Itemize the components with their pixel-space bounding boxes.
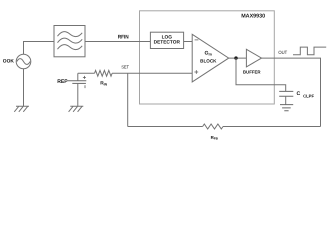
IC U1 MAX9930 outline <box>140 11 275 104</box>
wire OOK to filter <box>24 42 55 55</box>
svg-text:LOG: LOG <box>162 34 173 40</box>
ground (CLPF) <box>280 105 293 111</box>
svg-text:OUT: OUT <box>278 50 287 55</box>
svg-text:Gm: Gm <box>205 50 213 56</box>
log detector block <box>150 32 183 48</box>
wire filter to LOG DETECTOR (RFIN) <box>85 41 150 43</box>
svg-text:DETECTOR: DETECTOR <box>154 40 181 46</box>
svg-text:MAX9930: MAX9930 <box>241 14 265 20</box>
svg-text:CLPF: CLPF <box>303 93 314 98</box>
svg-text:REF: REF <box>57 79 68 85</box>
wire junction to CLPF capacitor <box>236 58 286 91</box>
wire RIN to SET node and Gm + input <box>112 72 192 74</box>
svg-text:BUFFER: BUFFER <box>243 69 262 74</box>
wire LOG DETECTOR to Gm block <box>184 41 193 43</box>
battery minus mark <box>84 85 86 88</box>
bandpass filter FL1 <box>54 26 85 57</box>
buffer amp <box>246 49 261 67</box>
wire battery to ground <box>77 83 79 106</box>
node SET vertical wire down <box>127 73 129 126</box>
wire bottom feedback run (right segment) <box>223 126 321 128</box>
svg-text:RFIN: RFIN <box>118 34 129 40</box>
wire OOK to ground <box>23 69 25 106</box>
svg-text:C: C <box>297 91 301 97</box>
square wave annotation <box>293 47 326 55</box>
battery REF stub up to wire <box>77 73 79 80</box>
Gm plus input mark <box>194 70 198 74</box>
ground (REF battery) <box>69 106 84 112</box>
capacitor CLPF <box>279 91 293 96</box>
ground (OOK source) <box>14 106 29 112</box>
svg-text:SET: SET <box>121 64 129 69</box>
svg-text:BLOCK: BLOCK <box>200 59 217 64</box>
Gm minus input mark <box>195 39 199 41</box>
op-amp Gm block <box>192 34 229 82</box>
svg-text:RFB: RFB <box>211 135 219 141</box>
battery REF <box>66 80 86 82</box>
wire bottom feedback run (left segment) <box>128 126 203 128</box>
wire capacitor to ground <box>285 96 287 104</box>
wire Gm output to buffer <box>229 57 247 59</box>
resistor RFB <box>203 124 223 129</box>
svg-text:RIN: RIN <box>100 81 107 87</box>
junction node dot <box>234 56 237 59</box>
resistor RIN <box>95 70 113 76</box>
OOK source V1 <box>16 54 31 69</box>
battery plus mark <box>83 76 86 79</box>
wire battery to resistor RIN <box>78 72 95 74</box>
wire buffer to OUT and down right side <box>262 58 321 126</box>
svg-text:OOK: OOK <box>3 58 15 64</box>
